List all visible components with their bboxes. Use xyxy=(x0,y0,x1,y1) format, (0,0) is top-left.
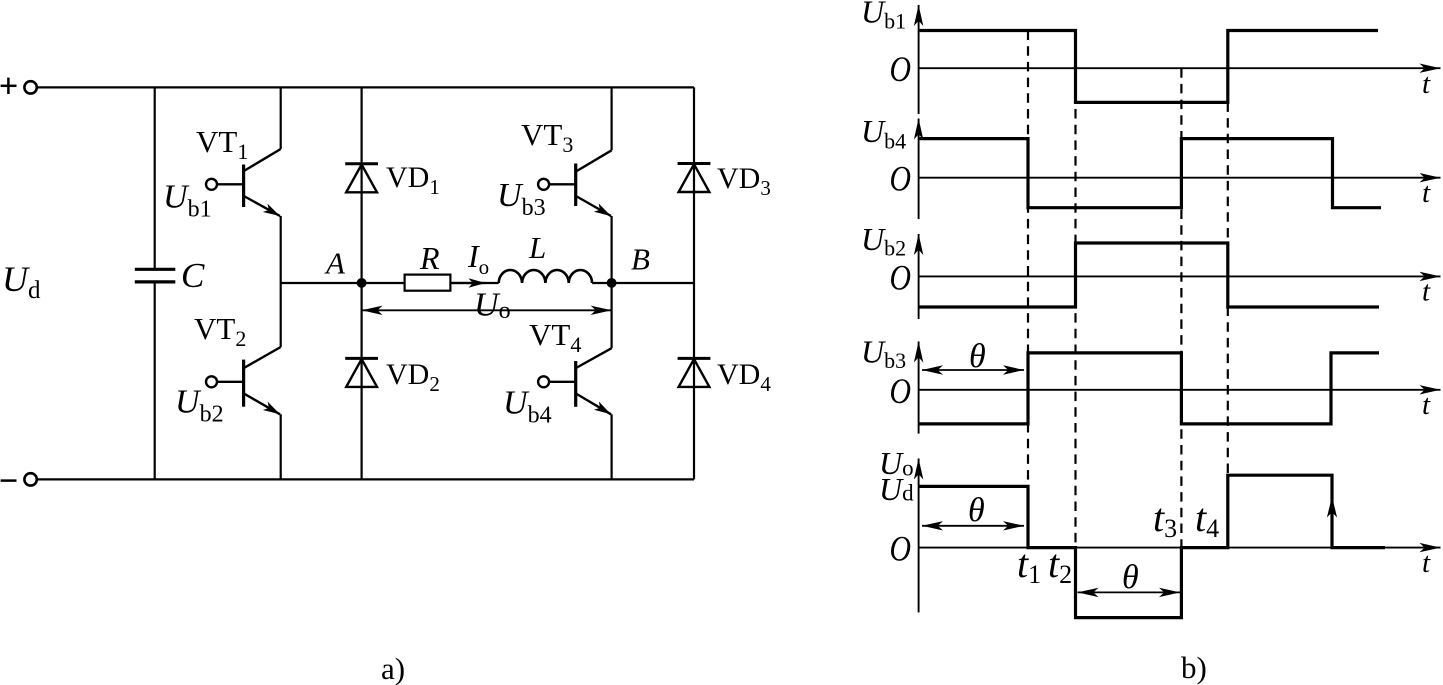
axis vertical Ub2 xyxy=(918,234,920,319)
svg-text:R: R xyxy=(419,240,440,276)
dashed line t3 xyxy=(1180,68,1182,547)
svg-text:θ: θ xyxy=(968,492,985,529)
inductor L xyxy=(499,270,592,283)
waveform Ub4 trace xyxy=(919,139,1381,208)
svg-text:A: A xyxy=(324,246,346,281)
wire node-A column xyxy=(361,87,363,479)
svg-text:O: O xyxy=(890,529,912,569)
axis horizontal Ub3 xyxy=(919,389,1441,391)
diode VD1 xyxy=(345,164,378,193)
axis horizontal Ub1 xyxy=(919,67,1441,69)
wire capacitor branch top xyxy=(154,87,156,269)
wire bottom rail xyxy=(37,478,694,480)
svg-text:θ: θ xyxy=(969,338,986,375)
negative terminal - xyxy=(1,473,37,485)
axis vertical Uo xyxy=(918,459,920,613)
node B xyxy=(607,278,617,288)
svg-text:O: O xyxy=(890,258,912,298)
current arrow Io xyxy=(452,282,486,284)
svg-text:t: t xyxy=(1422,276,1431,308)
dashed line t4 xyxy=(1227,102,1229,475)
svg-text:t: t xyxy=(1422,389,1431,421)
waveform Ub2 trace xyxy=(919,243,1379,307)
svg-text:L: L xyxy=(528,230,546,265)
svg-text:t: t xyxy=(1422,177,1431,209)
wire right column xyxy=(693,87,695,479)
wire B to right column xyxy=(612,282,694,284)
dimension arrow Uo xyxy=(362,309,612,311)
svg-text:C: C xyxy=(181,256,205,295)
axis horizontal Ub2 xyxy=(919,275,1441,277)
wire top rail xyxy=(37,86,694,88)
diode VD4 xyxy=(678,358,711,387)
svg-text:θ: θ xyxy=(1122,559,1139,596)
transistor VT3 xyxy=(538,87,612,283)
axis vertical Ub4 xyxy=(918,119,920,220)
node A xyxy=(357,278,367,288)
arrow on falling edge xyxy=(1327,497,1337,518)
transistor VT1 xyxy=(206,87,281,283)
capacitor C xyxy=(135,269,176,282)
axis vertical Ub3 xyxy=(918,342,920,434)
wire R to L xyxy=(450,282,498,284)
svg-text:O: O xyxy=(890,49,912,89)
waveform Ub3 trace xyxy=(919,353,1379,424)
svg-text:t: t xyxy=(1422,547,1431,579)
transistor VT2 xyxy=(206,283,281,479)
wire capacitor branch bottom xyxy=(154,282,156,479)
svg-text:B: B xyxy=(631,242,650,277)
dimension arrow theta negative pulse xyxy=(1078,591,1181,593)
dimension arrow theta (Ub3) xyxy=(922,369,1024,371)
waveform Uo trace xyxy=(919,475,1385,617)
svg-text:O: O xyxy=(890,371,912,411)
axis vertical Ub1 xyxy=(918,5,920,114)
svg-text:t: t xyxy=(1422,68,1431,100)
resistor R xyxy=(405,275,451,291)
svg-text:a): a) xyxy=(381,651,405,685)
dashed line t1 xyxy=(1027,31,1029,487)
waveform Ub1 trace xyxy=(919,31,1378,103)
dashed line t2 xyxy=(1074,31,1076,548)
positive terminal + xyxy=(1,78,37,94)
diode VD3 xyxy=(678,164,711,193)
axis horizontal Uo xyxy=(919,547,1441,549)
svg-text:b): b) xyxy=(1181,650,1207,685)
svg-text:O: O xyxy=(890,159,912,199)
wire A row left xyxy=(281,282,405,284)
wire L to B xyxy=(592,282,612,284)
dimension arrow theta first pulse xyxy=(922,525,1024,527)
axis horizontal Ub4 xyxy=(919,177,1441,179)
transistor VT4 xyxy=(538,283,612,479)
diode VD2 xyxy=(345,358,378,387)
